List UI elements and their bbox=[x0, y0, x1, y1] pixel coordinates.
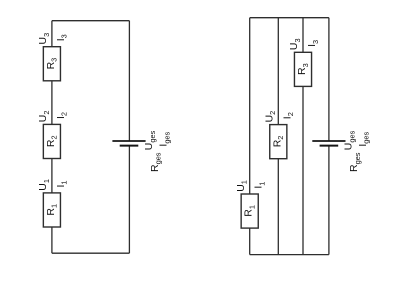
battery cell parallel source: long plate bbox=[312, 140, 345, 142]
wire: series left: R2 to R1 bbox=[51, 159, 53, 193]
svg-text:U3: U3 bbox=[37, 33, 51, 45]
svg-text:U2: U2 bbox=[263, 111, 277, 123]
wire: parallel left: R1 to bottom bbox=[249, 228, 251, 255]
svg-text:I1: I1 bbox=[55, 180, 69, 187]
svg-text:U1: U1 bbox=[235, 180, 249, 192]
wire: series right: top corner to battery bbox=[128, 21, 130, 141]
battery cell series source: long plate bbox=[112, 140, 145, 142]
svg-text:Iges: Iges bbox=[158, 131, 172, 146]
svg-text:U1: U1 bbox=[37, 179, 51, 191]
wire: branch 3: top to R3 bbox=[302, 18, 304, 53]
battery cell parallel source: short plate bbox=[320, 145, 339, 147]
wire: series left: R3 to R2 bbox=[51, 81, 53, 125]
resistor R2 series bbox=[43, 124, 60, 158]
svg-text:I3: I3 bbox=[55, 34, 69, 41]
svg-text:I2: I2 bbox=[55, 112, 69, 119]
wire: branch 2: top to R2 bbox=[277, 18, 279, 125]
wire: series top bbox=[52, 20, 129, 22]
svg-text:I3: I3 bbox=[306, 40, 320, 47]
wire: parallel top bbox=[250, 17, 329, 19]
wire: branch 2: R2 to bottom bbox=[277, 159, 279, 255]
resistor R3 parallel bbox=[294, 52, 311, 86]
wire: parallel left: top to R1 bbox=[249, 18, 251, 194]
wire: series bottom bbox=[52, 252, 129, 254]
resistor R3 series bbox=[43, 47, 60, 81]
resistor R2 parallel bbox=[270, 125, 287, 159]
svg-text:U2: U2 bbox=[37, 110, 51, 122]
svg-text:U3: U3 bbox=[288, 38, 302, 50]
wire: series left: top corner to R3 bbox=[51, 21, 53, 47]
wire: parallel right: battery to bottom bbox=[328, 146, 330, 255]
wire: series right: battery to bottom corner bbox=[128, 146, 130, 254]
wire: series left: R1 to bottom corner bbox=[51, 227, 53, 253]
svg-text:Rges: Rges bbox=[149, 152, 163, 172]
svg-text:I2: I2 bbox=[281, 112, 295, 119]
resistor R1 parallel bbox=[241, 194, 258, 228]
wire: parallel right: top to battery bbox=[328, 18, 330, 141]
wire: parallel bottom bbox=[250, 254, 329, 256]
battery cell series source: short plate bbox=[120, 145, 139, 147]
svg-text:Rges: Rges bbox=[348, 152, 362, 172]
resistor R1 series bbox=[43, 193, 60, 227]
svg-text:Iges: Iges bbox=[357, 131, 371, 146]
wire: branch 3: R3 to bottom bbox=[302, 86, 304, 254]
svg-text:I1: I1 bbox=[253, 182, 267, 189]
